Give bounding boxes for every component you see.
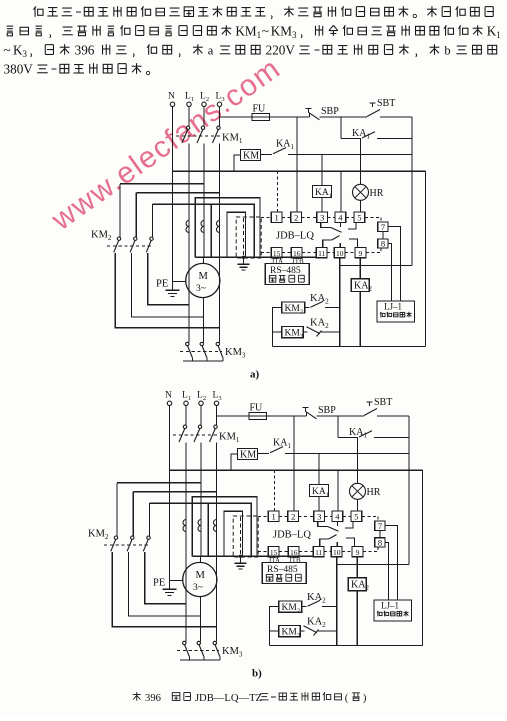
- wire KM2 out 3 (to L1 col) (b): [145, 552, 186, 604]
- wire drop KM-line to KA1 coil (a): [321, 154, 323, 185]
- wire KM2 out 3 (to L1 col) (a): [148, 253, 189, 305]
- ground symbol PE (a): [166, 289, 180, 291]
- motor M 3~ (b): [183, 562, 217, 596]
- wire terminal 7 to LJ-1 (a): [388, 227, 400, 302]
- JDB-LQ terminal 4 (b): [332, 511, 343, 522]
- svg-text:FU: FU: [253, 104, 267, 115]
- wire drop to terminal 2 (b): [293, 416, 295, 511]
- wire KA1 coil to terminal 3 (a): [321, 198, 323, 213]
- wire N feeder (a): [172, 107, 174, 291]
- pushbutton SBP (NC stop) (b): [303, 407, 309, 409]
- contactor KM3 contact 1 (a): [186, 342, 189, 345]
- svg-text:a): a): [250, 368, 260, 380]
- current transformer CT2 (a): [201, 221, 204, 233]
- JDB-LQ terminal 3 (b): [314, 511, 325, 522]
- wire terminal 10 down (b): [336, 557, 338, 565]
- svg-text:380V: 380V: [4, 61, 34, 76]
- KM2 linkage dashed (b): [104, 544, 150, 546]
- JDB-LQ row1 dashed bus (a): [261, 216, 271, 218]
- CT box internal dashed link (a): [243, 218, 245, 256]
- svg-text:SBT: SBT: [374, 397, 392, 408]
- svg-text:10: 10: [336, 249, 344, 258]
- wire KM2/KM3 coils left link (a): [273, 308, 282, 347]
- svg-text:FU: FU: [250, 403, 264, 414]
- JDB-LQ terminal 8 (a): [378, 239, 388, 248]
- contactor coil KM2 box (b): [279, 601, 302, 612]
- svg-text:2: 2: [294, 213, 298, 223]
- wire CT secondary square mid (b): [208, 503, 251, 556]
- svg-text:LJ–1: LJ–1: [381, 600, 399, 610]
- wire L3 column (a): [219, 144, 221, 328]
- wire motor bottom to delta (a): [203, 298, 205, 317]
- JDB-LQ internal contact row2b (a): [349, 239, 358, 248]
- relay contact KA1 (KM line) (a): [261, 153, 273, 155]
- svg-text:N: N: [168, 92, 175, 102]
- CT terminal dashed box (a): [236, 217, 261, 258]
- svg-text:b: b: [444, 43, 450, 57]
- current transformer CT3 (a): [217, 221, 220, 233]
- wire terminal 7 to LJ-1 (b): [385, 526, 397, 601]
- wire dashed 8-to-row2 (b): [377, 547, 379, 552]
- wire terminal 10 down (a): [339, 258, 341, 266]
- wire KM2 feed 2 (b): [132, 492, 134, 536]
- wire CT secondary square inner (b): [224, 511, 243, 556]
- ground symbol PE (b): [163, 588, 177, 590]
- svg-text:LJ–1: LJ–1: [384, 301, 402, 311]
- KM2 linkage dashed (a): [107, 245, 153, 247]
- wire control rail SBT to right (a): [380, 116, 412, 118]
- contactor coil KM box (b): [238, 449, 258, 460]
- wire dashed 5-to-7 (b): [377, 516, 379, 521]
- wire KM2 feed 1 (b): [116, 483, 118, 536]
- wire N feeder (b): [169, 406, 171, 590]
- wire KM coil left to N-return (b): [231, 454, 238, 470]
- wire KM3 drop 1 (a): [188, 305, 190, 343]
- wire KA2 coil to bottom rail (b): [356, 591, 358, 646]
- contactor KM2 contact 2 (b): [131, 536, 134, 539]
- wire KA2 branch rail (a): [339, 266, 341, 347]
- contactor coil KM3 box (b): [279, 626, 301, 637]
- wire L2 column (a): [203, 144, 205, 258]
- KM3 linkage dashed (b): [177, 649, 219, 651]
- wire L2 column (b): [200, 443, 202, 557]
- wire drop to terminal 4 (a): [340, 171, 342, 212]
- svg-text:396: 396: [145, 693, 161, 704]
- label tongxin-jiekou (comm port) (b): [266, 574, 273, 581]
- JDB-LQ terminal 2 (a): [291, 212, 302, 223]
- JDB-LQ terminal 3 (a): [317, 212, 328, 223]
- wire motor feed (b): [200, 556, 202, 562]
- svg-text:b): b): [252, 667, 262, 679]
- wire CT secondary bus (b): [192, 555, 313, 557]
- wire horizontal 10-to-right-rail (a): [340, 265, 412, 267]
- svg-text:SBP: SBP: [318, 405, 336, 416]
- relay coil KA1 box (b): [310, 485, 329, 497]
- contactor KM1 main contact 3 (b): [214, 425, 217, 428]
- wire KM2/KM3 coils left link (b): [270, 607, 279, 646]
- wire 7-8 link (a): [382, 232, 384, 239]
- wire KA1 branch drop (a): [340, 117, 342, 139]
- signal lamp HR (b): [350, 483, 366, 499]
- svg-text:3: 3: [317, 512, 321, 522]
- text paragraph line 2: [7, 26, 14, 36]
- svg-text:7: 7: [381, 222, 385, 232]
- wire KA2 coil to bottom rail (a): [359, 292, 361, 347]
- wire L3 column (b): [216, 443, 218, 627]
- wire KM2 out 1 (to L3 col) (b): [112, 552, 216, 627]
- wire KM coil left to N-return (a): [234, 155, 241, 171]
- relay contact KA2 NC (a): [303, 331, 307, 333]
- wire KM3 drop 2 (b): [200, 616, 202, 641]
- svg-text:SBT: SBT: [377, 98, 395, 109]
- svg-text:KM: KM: [243, 151, 259, 162]
- svg-text:HR: HR: [370, 188, 384, 199]
- wire KM2 out 1 (to L3 col) (a): [115, 253, 219, 328]
- svg-text:9: 9: [359, 249, 363, 258]
- wire lamp branch (a): [360, 139, 362, 185]
- wire lamp to terminal 5 (a): [360, 200, 362, 212]
- svg-text:PE: PE: [156, 279, 168, 290]
- wire terminal 9 down (b): [356, 557, 358, 578]
- svg-text:~: ~: [4, 42, 11, 57]
- svg-text:1: 1: [271, 512, 275, 522]
- contactor coil KM box (a): [241, 150, 261, 161]
- JDB-LQ terminal 8 (b): [375, 538, 385, 547]
- current transformer CT1 (a): [186, 221, 189, 233]
- JDB-LQ terminal 1 (b): [268, 511, 279, 522]
- svg-text:3~: 3~: [196, 284, 206, 294]
- wire motor PE tap (a): [173, 281, 186, 283]
- ground symbol (CT) (b): [235, 562, 247, 564]
- JDB-LQ internal contact row2 (a): [323, 240, 332, 248]
- junction dot ground (b): [239, 555, 242, 558]
- wire CT secondary square mid (a): [211, 204, 254, 257]
- contactor KM3 contact 3 (a): [216, 342, 219, 345]
- wire L1 feeder upper (a): [188, 107, 190, 127]
- wire 7-8 link (b): [379, 531, 381, 538]
- svg-text:5: 5: [354, 512, 358, 522]
- svg-text:4: 4: [335, 512, 340, 522]
- wire dashed 5-to-7 (a): [380, 217, 382, 222]
- wire KM3 drop 3 (a): [219, 328, 221, 343]
- JDB-LQ row2 dashed bus (a): [261, 252, 271, 254]
- JDB-LQ internal contact row1 (a): [321, 223, 331, 228]
- JDB-LQ terminal 15 (a): [271, 248, 282, 258]
- svg-text:JDB—LQ—TZ: JDB—LQ—TZ: [195, 693, 262, 704]
- svg-text:RS–485: RS–485: [270, 266, 301, 276]
- svg-text:9: 9: [356, 548, 360, 557]
- label lingxu-hugangqi (a): [380, 312, 385, 318]
- terminal circle x=219.5 (b): [214, 401, 218, 405]
- contactor KM2 contact 3 (b): [147, 536, 150, 539]
- RS-485 interface box (b): [262, 563, 306, 584]
- wire drop to terminal 4 (b): [337, 470, 339, 511]
- relay coil KA2 box (a): [351, 279, 369, 292]
- wire right rail upper (b): [408, 416, 410, 565]
- contactor KM1 main contact 3 (a): [217, 126, 220, 129]
- KM1 linkage dashed (a): [176, 135, 220, 137]
- svg-text:PE: PE: [153, 578, 165, 589]
- ground symbol (CT) (a): [238, 263, 250, 265]
- JDB-LQ row2 dashed bus (b): [258, 551, 268, 553]
- svg-text:396: 396: [75, 42, 95, 57]
- contactor KM1 main contact 1 (b): [183, 425, 186, 428]
- label lingxu-hugangqi (b): [377, 611, 382, 617]
- relay contact KA1 (seal-in) (b): [338, 437, 358, 439]
- svg-text:M: M: [196, 570, 206, 581]
- svg-text:JDB–LQ: JDB–LQ: [273, 530, 311, 541]
- wire KM2 out 2 (to L2 col) (a): [132, 253, 204, 317]
- svg-text:N: N: [165, 391, 172, 401]
- wire drop to terminal 2 (a): [296, 117, 298, 212]
- contactor KM2 contact 3 (a): [150, 237, 153, 240]
- terminal circle x=204 (a): [202, 102, 206, 106]
- signal lamp HR (a): [353, 184, 369, 200]
- caption figure 396: [133, 692, 141, 701]
- fuse FU (a): [252, 113, 270, 120]
- contactor coil KM2 box (a): [282, 302, 305, 313]
- junction dot ground (a): [242, 256, 245, 259]
- JDB-LQ internal contact row1b (a): [348, 223, 356, 229]
- wire terminal 9 down (a): [359, 258, 361, 279]
- wire KM2 feed 3 (a): [152, 204, 154, 237]
- contactor KM3 contact 2 (b): [197, 641, 200, 644]
- JDB-LQ terminal 5 (b): [351, 511, 362, 522]
- wire KM3 drop 3 (b): [216, 627, 218, 642]
- relay coil KA1 box (a): [313, 186, 332, 198]
- relay contact KA2 NO (a): [305, 307, 310, 309]
- svg-text:8: 8: [378, 537, 382, 547]
- svg-text:HR: HR: [367, 487, 381, 498]
- relay coil KA2 box (b): [348, 578, 366, 591]
- svg-text:8: 8: [381, 238, 385, 248]
- wire control rail SBP to SBT (a): [320, 116, 368, 118]
- svg-text:4: 4: [338, 213, 343, 223]
- contactor KM3 contact 1 (b): [183, 641, 186, 644]
- wire N-return horizontal (b): [170, 469, 423, 471]
- terminal circle x=204 (b): [199, 401, 203, 405]
- relay contact KA2 NO (b): [302, 606, 307, 608]
- terminal circle x=172.5 (a): [170, 102, 174, 106]
- svg-text:5: 5: [357, 213, 361, 223]
- contactor KM1 main contact 2 (a): [201, 126, 204, 129]
- motor M 3~ (a): [186, 263, 220, 297]
- wire ground stem (a): [243, 257, 245, 264]
- KM3 star bar (a): [183, 360, 223, 362]
- terminal circle x=172.5 (b): [167, 401, 171, 405]
- contactor KM1 main contact 1 (a): [186, 126, 189, 129]
- pushbutton SBP (NC stop) (a): [306, 108, 312, 110]
- terminal circle x=189 (b): [184, 401, 188, 405]
- wire L2 feeder upper (b): [200, 406, 202, 426]
- svg-text:~: ~: [262, 23, 269, 38]
- CT box internal dashed link (b): [240, 517, 242, 555]
- wire lamp branch (b): [357, 438, 359, 484]
- svg-text:3: 3: [320, 213, 324, 223]
- fuse FU (b): [249, 412, 267, 419]
- JDB-LQ terminal 7 (a): [378, 222, 388, 232]
- wire L3 to fuse (b): [217, 415, 250, 417]
- wire L3 feeder upper (a): [219, 107, 221, 127]
- JDB-LQ terminal 15 (b): [268, 547, 279, 557]
- CT terminal dashed box (b): [233, 516, 258, 557]
- wire KM3 drop 2 (a): [203, 317, 205, 342]
- wire right rail outer (b): [422, 470, 424, 645]
- wire terminal 8 to LJ-1 (a): [388, 244, 391, 302]
- JDB-LQ terminal 10 (b): [331, 547, 342, 557]
- wire KM2 out 2 (to L2 col) (b): [129, 552, 201, 616]
- RS-485 interface box (a): [265, 264, 309, 285]
- wire L3 to fuse (a): [220, 116, 253, 118]
- relay contact KA1 (KM line) (b): [258, 452, 270, 454]
- wire KA1 coil to terminal 3 (b): [318, 497, 320, 512]
- zero-sequence transformer LJ-1 box (b): [374, 600, 412, 621]
- JDB-LQ terminal 11 (a): [316, 248, 327, 258]
- JDB-LQ internal contact row1b (b): [345, 522, 353, 528]
- KM3 linkage dashed (a): [180, 350, 222, 352]
- JDB-LQ terminal 10 (a): [334, 248, 345, 258]
- JDB-LQ terminal 11 (b): [313, 547, 324, 557]
- svg-text:11: 11: [318, 249, 325, 258]
- JDB-LQ internal contact row2b (b): [346, 538, 355, 547]
- current transformer CT3 (b): [214, 520, 217, 532]
- svg-text:M: M: [199, 271, 209, 282]
- contactor KM3 contact 2 (a): [200, 342, 203, 345]
- wire L3 feeder upper (b): [216, 406, 218, 426]
- wire control rail FU to SBP (a): [270, 116, 310, 118]
- pushbutton SBT (NO start) (b): [367, 401, 373, 403]
- svg-text:7: 7: [378, 521, 382, 531]
- KM1 linkage dashed (b): [173, 434, 217, 436]
- wire dashed 8-to-row2 (a): [380, 248, 382, 253]
- zero-sequence transformer LJ-1 box (a): [377, 301, 415, 322]
- wire L1 column (b): [185, 443, 187, 604]
- wire KA1 branch drop (b): [337, 416, 339, 438]
- svg-text:11: 11: [315, 548, 322, 557]
- wire bottom rail (b): [270, 644, 423, 646]
- wire right rail outer (a): [425, 171, 427, 346]
- JDB-LQ terminal 4 (a): [335, 212, 346, 223]
- wire motor bottom to delta (b): [200, 597, 202, 616]
- svg-text:a: a: [208, 43, 214, 57]
- JDB-LQ row1 dashed bus (b): [258, 515, 268, 517]
- wire CT secondary square top (b): [192, 497, 257, 557]
- current transformer CT1 (b): [183, 520, 186, 532]
- contactor KM1 main contact 2 (b): [198, 425, 201, 428]
- JDB-LQ terminal 7 (b): [375, 521, 385, 531]
- wire lamp to terminal 5 (b): [357, 499, 359, 511]
- svg-text:): ): [363, 693, 367, 704]
- JDB-LQ terminal 16 (b): [288, 547, 299, 557]
- wire N-return horizontal (a): [173, 170, 426, 172]
- svg-text:SBP: SBP: [321, 106, 339, 117]
- contactor KM2 contact 1 (a): [117, 237, 120, 240]
- wire ground stem (b): [240, 556, 242, 563]
- wire KA2 branch rail (b): [336, 565, 338, 646]
- JDB-LQ internal contact row2 (b): [320, 539, 329, 547]
- wire control rail FU to SBP (b): [267, 415, 307, 417]
- wire CT secondary square inner (a): [227, 212, 246, 257]
- wire CT secondary bus (a): [195, 256, 316, 258]
- wire KM2 feed 1 (a): [119, 184, 121, 237]
- relay contact KA2 NC (b): [300, 630, 304, 632]
- pushbutton SBT (NO start) (a): [370, 102, 376, 104]
- JDB-LQ internal contact row1 (b): [318, 522, 328, 527]
- terminal circle x=219.5 (a): [217, 102, 221, 106]
- wire KM2 feed 3 (b): [149, 503, 151, 536]
- current transformer CT2 (b): [198, 520, 201, 532]
- wire CT secondary square top (a): [195, 198, 260, 258]
- JDB-LQ terminal 2 (b): [288, 511, 299, 522]
- svg-text:3~: 3~: [193, 583, 203, 593]
- contactor KM2 contact 2 (a): [134, 237, 137, 240]
- wire KM2 feed 2 (a): [135, 193, 137, 237]
- contactor coil KM3 box (a): [282, 327, 304, 338]
- wire L1 feeder upper (b): [185, 406, 187, 426]
- wire L1 column (a): [188, 144, 190, 305]
- wire motor PE tap (b): [170, 580, 183, 582]
- relay contact KA1 (seal-in) (a): [341, 138, 361, 140]
- svg-text:KM: KM: [240, 450, 256, 461]
- svg-text:10: 10: [333, 548, 341, 557]
- JDB-LQ terminal 16 (a): [291, 248, 302, 258]
- svg-text:JDB–LQ: JDB–LQ: [276, 231, 314, 242]
- wire control rail SBP to SBT (b): [317, 415, 365, 417]
- svg-text:(: (: [345, 693, 349, 704]
- wire right rail upper (a): [411, 117, 413, 266]
- wire drop KM-line to KA1 coil (b): [318, 453, 320, 484]
- svg-text:2: 2: [291, 512, 295, 522]
- wire L2 feeder upper (a): [203, 107, 205, 127]
- wire dashed drop to terminal 1 (a): [276, 171, 278, 212]
- wire terminal 8 to LJ-1 (b): [385, 543, 388, 601]
- wire dashed drop to terminal 1 (b): [273, 470, 275, 511]
- KM3 star bar (b): [180, 659, 220, 661]
- text paragraph line 1: [33, 6, 43, 16]
- JDB-LQ terminal 1 (a): [271, 212, 282, 223]
- wire bottom rail (a): [273, 345, 426, 347]
- JDB-LQ terminal 5 (a): [354, 212, 365, 223]
- wire KM3 drop 1 (b): [185, 604, 187, 642]
- JDB-LQ terminal 9 (b): [352, 547, 363, 557]
- contactor KM2 contact 1 (b): [114, 536, 117, 539]
- terminal circle x=189 (a): [187, 102, 191, 106]
- svg-text:RS–485: RS–485: [267, 565, 298, 575]
- wire horizontal 10-to-right-rail (b): [337, 564, 409, 566]
- svg-text:1: 1: [274, 213, 278, 223]
- watermark www.elecfans.com: [45, 52, 287, 238]
- label tongxin-jiekou (comm port) (a): [269, 275, 276, 282]
- wire motor feed (a): [203, 257, 205, 263]
- JDB-LQ terminal 9 (a): [355, 248, 366, 258]
- wire control rail SBT to right (b): [377, 415, 409, 417]
- contactor KM3 contact 3 (b): [213, 641, 216, 644]
